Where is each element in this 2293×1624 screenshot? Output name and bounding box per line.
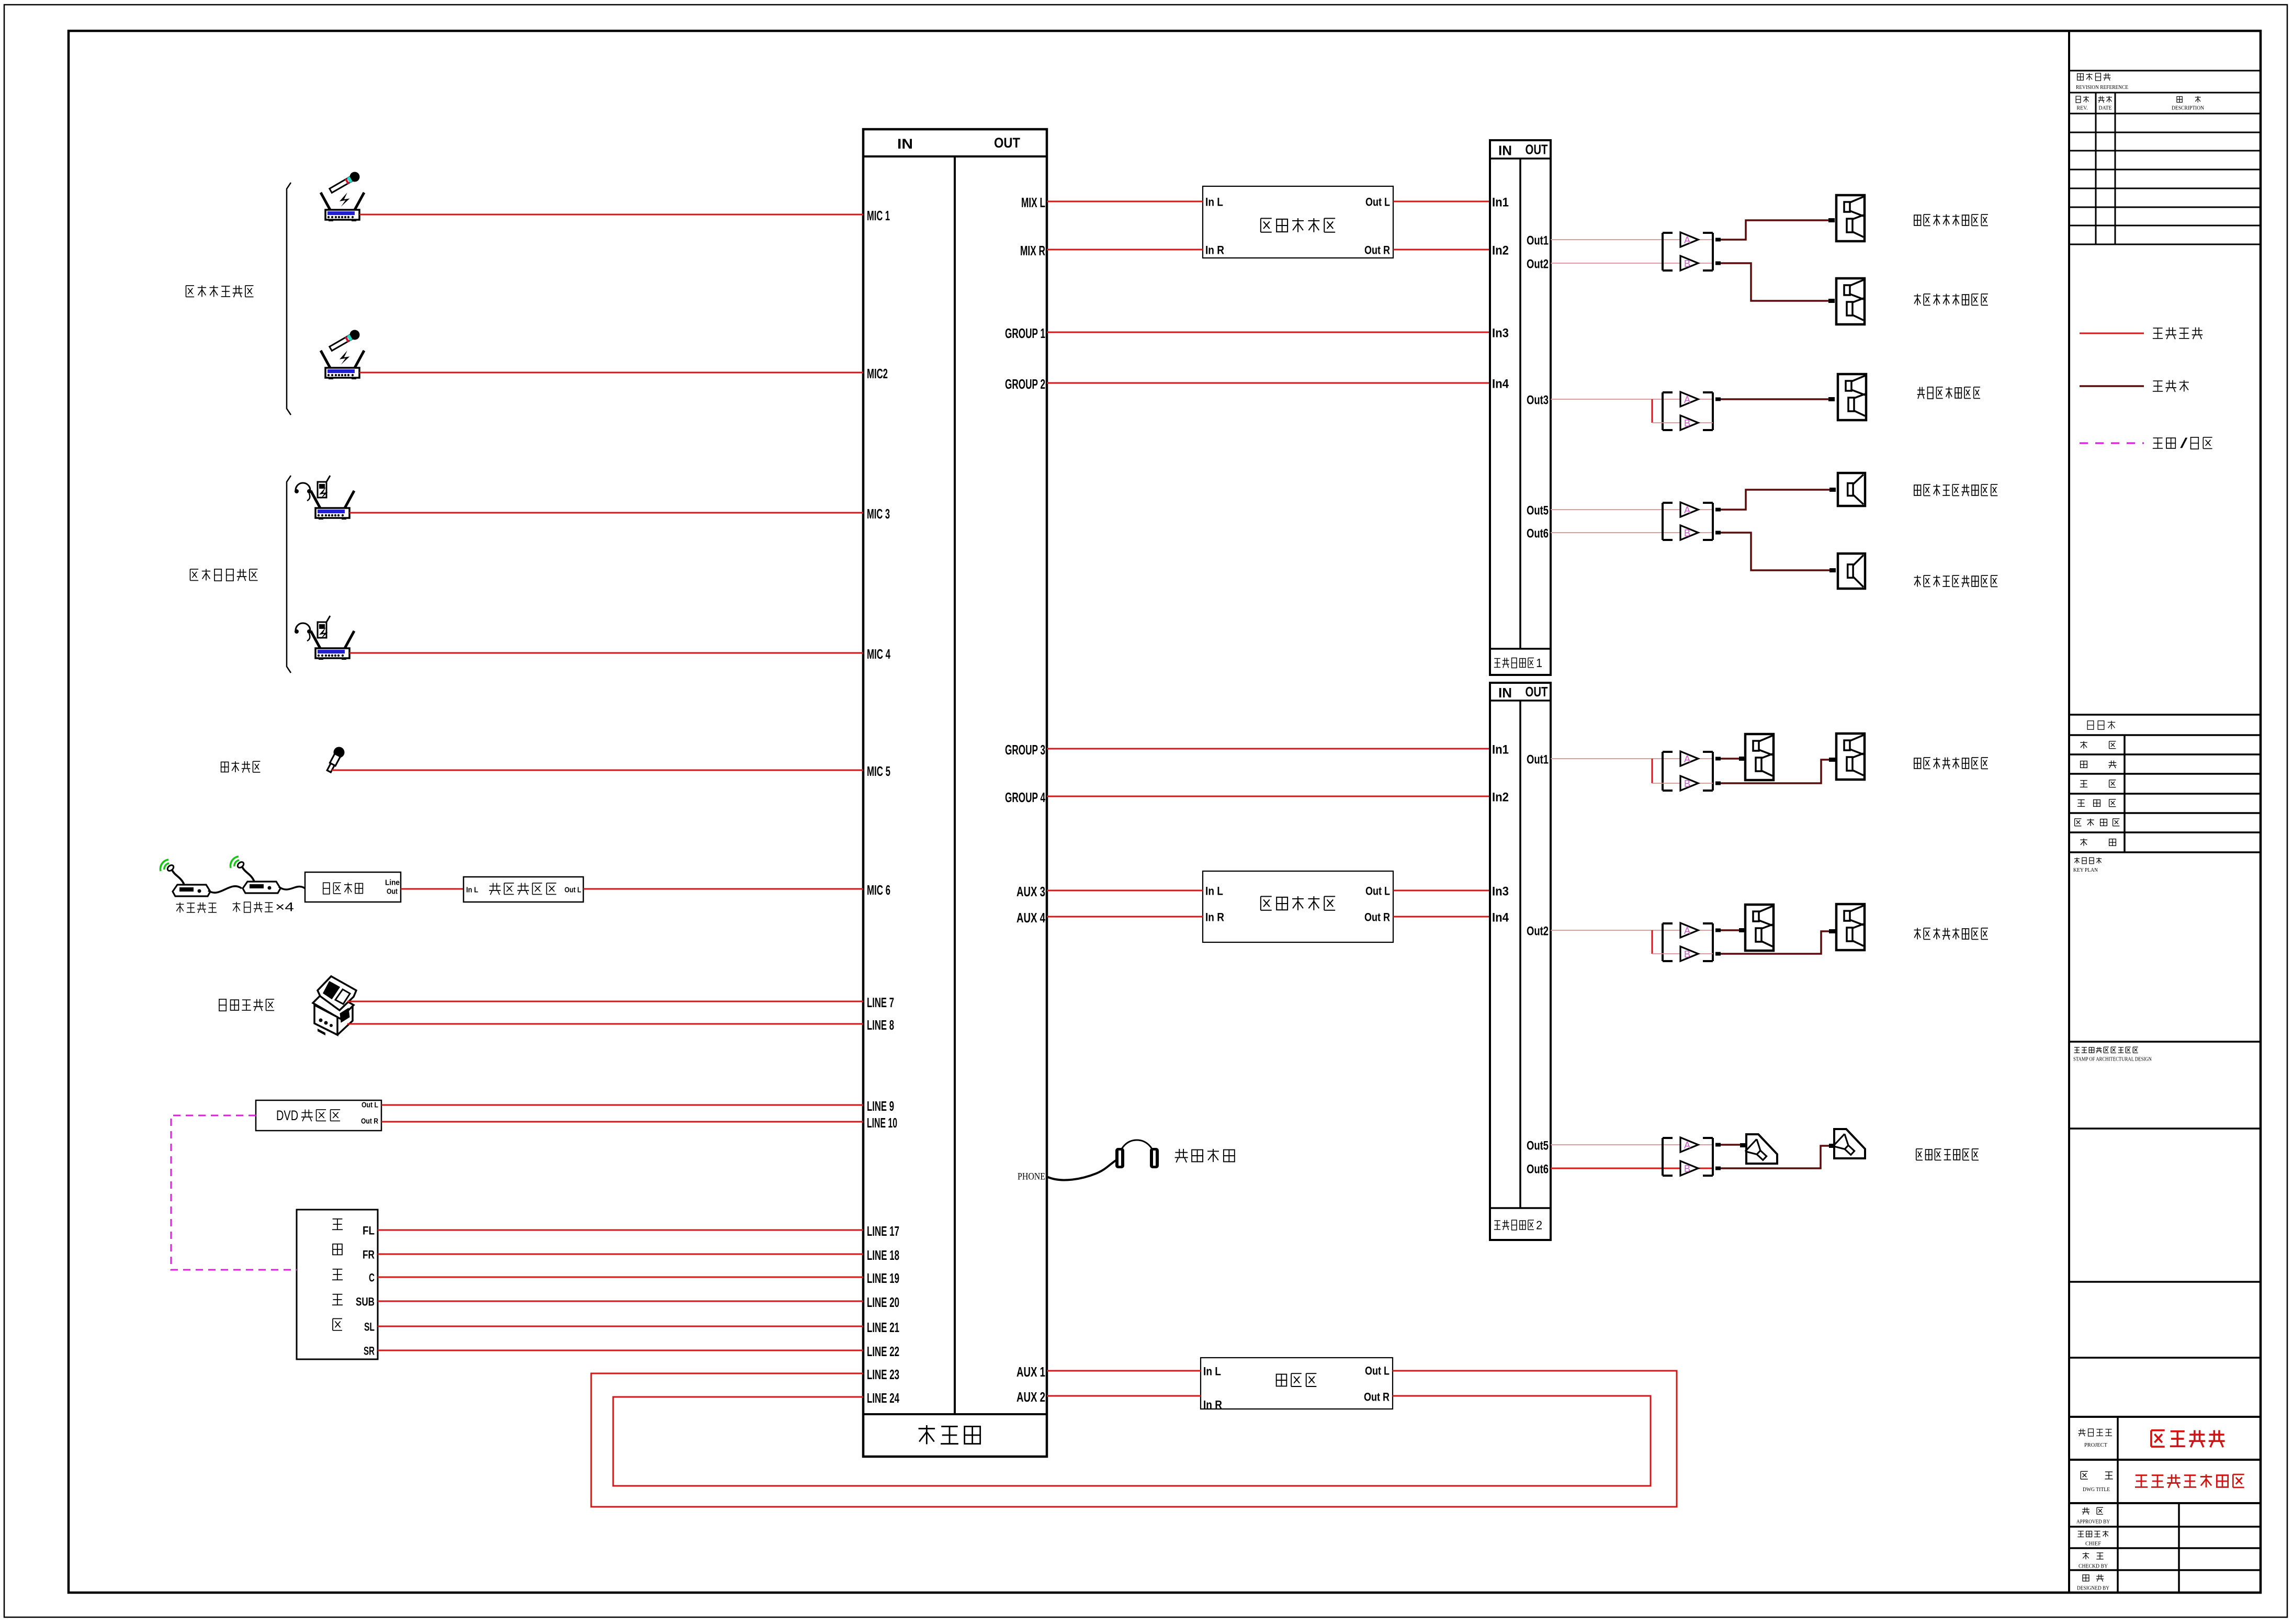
svg-text:Out2: Out2 <box>1527 924 1549 939</box>
svg-text:REVISION REFERENCE: REVISION REFERENCE <box>2076 84 2128 91</box>
svg-text:B: B <box>1684 779 1690 789</box>
svg-text:In2: In2 <box>1492 244 1509 258</box>
svg-text:DESIGNED BY: DESIGNED BY <box>2077 1586 2109 1592</box>
svg-text:LINE 10: LINE 10 <box>867 1115 897 1131</box>
svg-text:In R: In R <box>1203 1399 1222 1412</box>
svg-text:B: B <box>1684 418 1690 428</box>
svg-text:MIC 4: MIC 4 <box>867 646 890 662</box>
svg-text:Out R: Out R <box>1364 1391 1390 1404</box>
svg-text:In3: In3 <box>1492 885 1509 899</box>
svg-text:Out: Out <box>387 887 398 896</box>
svg-text:In L: In L <box>1203 1365 1221 1378</box>
svg-text:Out L: Out L <box>1365 1364 1390 1378</box>
svg-text:In4: In4 <box>1492 377 1509 391</box>
svg-text:DVD: DVD <box>276 1108 298 1123</box>
svg-text:CHIEF: CHIEF <box>2085 1541 2101 1547</box>
svg-text:MIX L: MIX L <box>1021 195 1045 210</box>
svg-text:STAMP OF ARCHITECTURAL DESIGN: STAMP OF ARCHITECTURAL DESIGN <box>2073 1057 2152 1063</box>
svg-text:LINE 18: LINE 18 <box>867 1247 899 1263</box>
svg-text:/: / <box>2180 435 2188 451</box>
svg-text:In1: In1 <box>1492 196 1509 210</box>
svg-text:A: A <box>1684 235 1690 245</box>
svg-text:DWG TITLE: DWG TITLE <box>2083 1486 2110 1493</box>
svg-text:REV.: REV. <box>2077 106 2088 111</box>
svg-text:AUX 1: AUX 1 <box>1016 1364 1045 1380</box>
svg-text:B: B <box>1684 949 1690 960</box>
svg-text:MIC 5: MIC 5 <box>867 763 890 779</box>
svg-text:Out1: Out1 <box>1527 753 1549 767</box>
svg-text:2: 2 <box>1536 1219 1542 1232</box>
svg-text:MIC 6: MIC 6 <box>867 882 890 898</box>
svg-text:LINE 22: LINE 22 <box>867 1344 899 1359</box>
svg-text:Out5: Out5 <box>1527 504 1549 518</box>
svg-text:Line: Line <box>385 878 400 887</box>
svg-text:DATE: DATE <box>2099 106 2112 111</box>
svg-text:Out3: Out3 <box>1527 393 1549 408</box>
svg-text:In4: In4 <box>1492 911 1509 925</box>
svg-text:GROUP 1: GROUP 1 <box>1005 325 1045 341</box>
svg-text:KEY PLAN: KEY PLAN <box>2073 867 2098 873</box>
svg-text:LINE 17: LINE 17 <box>867 1223 899 1239</box>
svg-text:PROJECT: PROJECT <box>2084 1442 2107 1448</box>
svg-text:Out L: Out L <box>564 886 581 895</box>
svg-text:AUX 2: AUX 2 <box>1016 1389 1045 1405</box>
svg-text:Out6: Out6 <box>1527 527 1549 541</box>
svg-text:SUB: SUB <box>356 1295 375 1309</box>
svg-text:GROUP 4: GROUP 4 <box>1005 790 1045 805</box>
svg-text:PHONE: PHONE <box>1018 1171 1045 1182</box>
svg-text:CHECKD BY: CHECKD BY <box>2079 1564 2108 1570</box>
svg-text:OUT: OUT <box>1526 684 1548 700</box>
svg-text:Out1: Out1 <box>1527 234 1549 248</box>
svg-text:IN: IN <box>897 136 913 152</box>
svg-text:OUT: OUT <box>994 135 1020 151</box>
svg-text:A: A <box>1684 754 1690 764</box>
svg-text:APPROVED BY: APPROVED BY <box>2076 1519 2110 1525</box>
svg-text:In L: In L <box>1205 885 1223 898</box>
svg-text:GROUP 3: GROUP 3 <box>1005 742 1045 758</box>
svg-text:LINE 9: LINE 9 <box>867 1098 894 1114</box>
svg-text:Out R: Out R <box>361 1117 378 1126</box>
svg-text:In L: In L <box>466 886 478 895</box>
svg-text:×4: ×4 <box>275 900 294 915</box>
svg-text:In L: In L <box>1205 196 1223 209</box>
svg-text:Out R: Out R <box>1364 911 1390 924</box>
svg-text:Out L: Out L <box>362 1101 378 1110</box>
svg-text:MIC 3: MIC 3 <box>867 506 890 522</box>
svg-text:B: B <box>1684 258 1690 269</box>
svg-text:Out6: Out6 <box>1527 1163 1549 1177</box>
svg-text:LINE 21: LINE 21 <box>867 1319 899 1335</box>
svg-text:In R: In R <box>1205 244 1224 257</box>
svg-text:Out R: Out R <box>1364 244 1390 257</box>
svg-text:LINE 24: LINE 24 <box>867 1390 899 1406</box>
svg-text:Out2: Out2 <box>1527 257 1549 272</box>
svg-text:AUX 3: AUX 3 <box>1016 884 1045 899</box>
svg-text:Out5: Out5 <box>1527 1139 1549 1153</box>
svg-text:MIX R: MIX R <box>1020 243 1045 258</box>
svg-text:B: B <box>1684 528 1690 538</box>
svg-text:SR: SR <box>364 1345 375 1358</box>
svg-text:LINE 23: LINE 23 <box>867 1367 899 1382</box>
svg-text:A: A <box>1684 926 1690 936</box>
svg-text:In1: In1 <box>1492 743 1509 757</box>
svg-text:LINE 7: LINE 7 <box>867 995 894 1010</box>
svg-text:LINE 8: LINE 8 <box>867 1017 894 1033</box>
svg-text:A: A <box>1684 505 1690 515</box>
svg-text:IN: IN <box>1498 685 1512 701</box>
svg-text:OUT: OUT <box>1526 142 1548 157</box>
svg-text:MIC 1: MIC 1 <box>867 208 890 223</box>
svg-text:B: B <box>1684 1164 1690 1174</box>
svg-text:MIC2: MIC2 <box>867 366 888 381</box>
svg-text:A: A <box>1684 394 1690 405</box>
svg-text:In R: In R <box>1205 911 1224 924</box>
svg-text:LINE 20: LINE 20 <box>867 1294 899 1310</box>
svg-text:In2: In2 <box>1492 791 1509 805</box>
svg-text:DESCRIPTION: DESCRIPTION <box>2172 106 2204 111</box>
svg-text:1: 1 <box>1536 656 1542 670</box>
svg-text:C: C <box>369 1271 375 1284</box>
svg-text:LINE 19: LINE 19 <box>867 1270 899 1286</box>
svg-text:IN: IN <box>1498 143 1512 159</box>
svg-text:SL: SL <box>364 1321 375 1334</box>
svg-text:FR: FR <box>363 1248 375 1261</box>
svg-text:A: A <box>1684 1140 1690 1151</box>
svg-text:GROUP 2: GROUP 2 <box>1005 376 1045 392</box>
svg-text:Out L: Out L <box>1365 196 1390 209</box>
svg-text:AUX 4: AUX 4 <box>1016 910 1045 926</box>
svg-text:FL: FL <box>363 1224 375 1237</box>
svg-text:Out L: Out L <box>1365 885 1390 898</box>
svg-text:In3: In3 <box>1492 326 1509 341</box>
